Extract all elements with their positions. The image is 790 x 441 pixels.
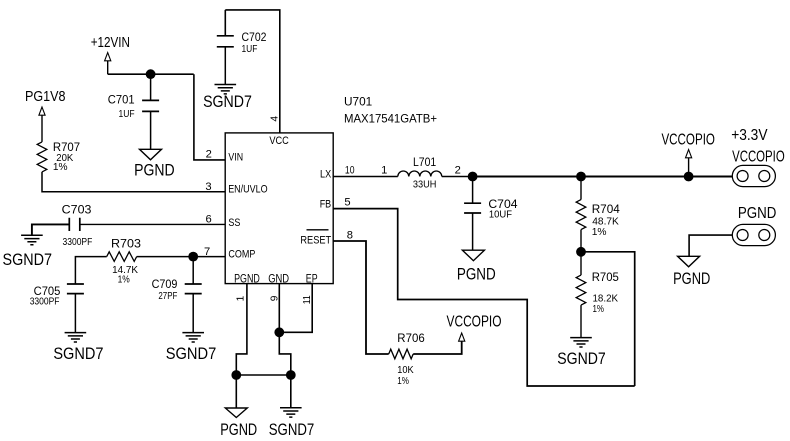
resistor R707	[37, 142, 47, 172]
label PGND connector	[738, 205, 777, 222]
svg-text:2: 2	[455, 165, 461, 177]
value R706 1%	[397, 376, 409, 387]
label R707	[53, 140, 80, 154]
svg-text:+12VIN: +12VIN	[91, 34, 130, 51]
wire C701 bottom stub	[150, 111, 152, 149]
wire C705 to R703	[75, 257, 106, 284]
svg-text:LX: LX	[320, 169, 331, 181]
value C709 27PF	[158, 291, 177, 302]
wire +12VIN horizontal to VIN drop	[108, 73, 194, 75]
svg-text:VIN: VIN	[228, 151, 243, 163]
svg-text:R706: R706	[397, 331, 425, 345]
node rail/VCCOPIO junction	[684, 172, 694, 182]
wire EP pin11	[279, 284, 312, 333]
svg-text:L701: L701	[413, 155, 436, 169]
wire R704 top stub	[580, 177, 582, 200]
value R707 1%	[53, 162, 68, 173]
wire bottom junction link	[236, 374, 290, 376]
label PGND under C701	[134, 162, 175, 180]
svg-text:PGND: PGND	[738, 205, 777, 222]
svg-text:PGND: PGND	[134, 162, 175, 180]
value R703 1%	[118, 275, 130, 286]
ground PGND under connector	[678, 256, 700, 267]
resistor R705	[576, 275, 586, 305]
net label VCCOPIO at R706	[447, 313, 502, 330]
ground SGND7 under C702	[215, 85, 237, 94]
wire C709 top stub	[192, 257, 194, 284]
svg-text:3300PF: 3300PF	[63, 237, 93, 248]
value R706 10K	[397, 365, 413, 376]
svg-text:7: 7	[204, 246, 210, 258]
net label +3.3V	[731, 127, 768, 144]
ground SGND7 under R705	[570, 338, 592, 347]
label R704	[592, 202, 620, 216]
pin number 7	[204, 246, 210, 258]
pin number 9	[269, 295, 280, 301]
wire C701 top stub	[150, 74, 152, 100]
svg-text:+3.3V: +3.3V	[731, 127, 768, 144]
op-amp U701 body	[225, 133, 333, 284]
pin name PGND	[234, 273, 260, 285]
terminal number 1 of L701	[381, 165, 387, 177]
connector J-VCCOPIO	[732, 165, 775, 186]
wire L701 to output rail	[442, 176, 473, 178]
wire R706 to VCCOPIO arrow	[413, 342, 462, 355]
wire R703 to COMP	[137, 256, 226, 258]
ground PGND bottom triangle	[225, 408, 247, 418]
label PGND under C704	[457, 265, 496, 283]
label SGND7 under C702	[203, 93, 252, 111]
wire LX to L701	[333, 176, 398, 178]
svg-text:4: 4	[269, 116, 280, 122]
pin number 5	[344, 197, 350, 209]
svg-text:10K: 10K	[397, 365, 413, 376]
pin name RESET	[300, 230, 331, 247]
node +12VIN/C701 junction	[146, 69, 156, 79]
wire VCCOPIO arrow stem	[688, 158, 690, 177]
pin number 4	[269, 116, 280, 122]
capacitor C701	[142, 100, 159, 111]
svg-text:PGND: PGND	[673, 270, 710, 288]
value R707 20K	[56, 153, 73, 164]
pin number 2	[206, 149, 212, 161]
svg-text:SGND7: SGND7	[557, 350, 606, 368]
power arrow PG1V8	[39, 107, 45, 115]
net label PG1V8	[25, 88, 66, 105]
value L701 33UH	[413, 179, 437, 190]
wire R705 top stub	[580, 252, 582, 275]
svg-text:PGND: PGND	[457, 265, 496, 283]
svg-text:VCC: VCC	[269, 135, 289, 147]
value R705 18.2K	[593, 294, 619, 305]
value R703 14.7K	[112, 265, 138, 276]
wire C702 upper stub	[224, 10, 226, 36]
capacitor C705	[67, 284, 84, 294]
label R706	[397, 331, 425, 345]
pin number 6	[205, 214, 211, 226]
value R704 1%	[592, 227, 607, 238]
label SGND7 under C705	[53, 345, 103, 363]
svg-text:1%: 1%	[397, 376, 409, 387]
wire midpoint to FB drop	[581, 252, 635, 386]
pin name COMP	[228, 248, 255, 260]
node GND/EP junction	[274, 327, 284, 337]
wire GND pin9	[279, 284, 291, 408]
pin number 10	[345, 165, 355, 177]
svg-text:SGND7: SGND7	[53, 345, 103, 363]
svg-text:SS: SS	[228, 217, 240, 229]
capacitor C709	[185, 284, 202, 294]
wire SGND7 stub to C703	[32, 224, 69, 235]
connector J-PGND	[732, 224, 775, 245]
node rail/C704 junction	[468, 172, 478, 182]
pin number 3	[205, 181, 211, 193]
svg-text:1%: 1%	[593, 304, 605, 315]
value R704 48.7K	[592, 216, 619, 227]
wire C703 to SS	[80, 223, 225, 225]
pin number 8	[347, 229, 353, 241]
ground PGND under C704	[462, 250, 484, 261]
label C702	[242, 30, 267, 44]
power arrow +12VIN	[105, 53, 111, 61]
value C704 10UF	[489, 210, 512, 221]
net label VCCOPIO above rail	[661, 132, 715, 149]
svg-text:5: 5	[344, 197, 350, 209]
pin number 1	[236, 295, 247, 301]
wire C709 bottom stub	[192, 294, 194, 333]
svg-text:EN/UVLO: EN/UVLO	[228, 184, 267, 196]
svg-text:R704: R704	[592, 202, 620, 216]
svg-text:U701: U701	[344, 95, 372, 109]
net label +12VIN	[91, 34, 130, 51]
value C703 3300PF	[63, 237, 93, 248]
pin name EP	[306, 273, 318, 285]
svg-text:1UF: 1UF	[242, 44, 258, 55]
label SGND7 under C709	[166, 345, 217, 363]
node FB midpoint junction	[576, 247, 586, 257]
pin name EN/UVLO	[228, 184, 267, 196]
svg-text:18.2K: 18.2K	[593, 294, 619, 305]
pin name VIN	[228, 151, 243, 163]
svg-text:SGND7: SGND7	[3, 251, 53, 269]
node COMP/C709 junction	[188, 252, 198, 262]
label C704	[488, 197, 517, 211]
svg-text:3300PF: 3300PF	[30, 296, 60, 307]
value C702 1UF	[242, 44, 258, 55]
wire RESET to R706	[333, 241, 389, 354]
label SGND7 bottom	[269, 421, 315, 439]
label SGND7 under R705	[557, 350, 606, 368]
svg-text:R705: R705	[592, 270, 619, 284]
svg-text:48.7K: 48.7K	[592, 216, 619, 227]
label C703	[62, 203, 92, 217]
svg-text:SGND7: SGND7	[203, 93, 252, 111]
capacitor C702	[217, 36, 234, 47]
label MAX17541GATB+	[344, 112, 437, 126]
label L701	[413, 155, 436, 169]
svg-text:27PF: 27PF	[158, 291, 177, 302]
value R705 1%	[593, 304, 605, 315]
wire C704 bottom stub	[472, 213, 474, 250]
svg-text:1: 1	[381, 165, 387, 177]
svg-text:FB: FB	[320, 199, 332, 211]
label R705	[592, 270, 619, 284]
pin name SS	[228, 217, 240, 229]
svg-text:10: 10	[345, 165, 355, 177]
resistor R706	[389, 349, 414, 359]
wire R705 bottom stub	[580, 305, 582, 338]
ground SGND7 under C705	[65, 333, 87, 342]
inductor L701	[398, 171, 442, 176]
svg-text:EP: EP	[306, 273, 318, 285]
svg-text:COMP: COMP	[228, 248, 255, 260]
wire PGND pin1	[236, 284, 247, 408]
power arrow VCCOPIO at R706	[459, 333, 465, 341]
svg-text:6: 6	[205, 214, 211, 226]
ground PGND under C701	[140, 149, 162, 160]
capacitor C704	[464, 203, 481, 213]
svg-text:VCCOPIO: VCCOPIO	[661, 132, 715, 149]
wire output rail	[473, 176, 732, 178]
svg-text:VCCOPIO: VCCOPIO	[732, 149, 785, 166]
wire +12VIN stem	[107, 61, 109, 74]
svg-text:33UH: 33UH	[413, 179, 437, 190]
label PGND under connector	[673, 270, 710, 288]
wire PGND connector to ground	[689, 235, 732, 256]
wire C704 top stub	[472, 177, 474, 204]
power arrow VCCOPIO at rail	[686, 150, 692, 158]
pin number 11	[302, 295, 313, 304]
wire C705 bottom stub	[74, 294, 76, 333]
svg-text:RESET: RESET	[300, 235, 331, 247]
node SGND bottom junction	[286, 370, 296, 380]
svg-text:SGND7: SGND7	[269, 421, 315, 439]
svg-text:1%: 1%	[592, 227, 607, 238]
svg-text:C703: C703	[62, 203, 92, 217]
wire PG1V8 stem	[41, 115, 43, 142]
label SGND7 at C703	[3, 251, 53, 269]
terminal number 2 of L701	[455, 165, 461, 177]
node PGND bottom junction	[231, 370, 241, 380]
ground SGND7 at C703	[21, 235, 43, 244]
capacitor C703	[69, 218, 80, 231]
svg-text:1UF: 1UF	[119, 109, 135, 120]
svg-text:SGND7: SGND7	[166, 345, 217, 363]
svg-text:1: 1	[236, 295, 247, 301]
svg-text:1%: 1%	[118, 275, 130, 286]
svg-text:3: 3	[205, 181, 211, 193]
svg-text:PG1V8: PG1V8	[25, 88, 66, 105]
svg-text:GND: GND	[268, 273, 289, 285]
label C705	[34, 284, 61, 298]
svg-text:8: 8	[347, 229, 353, 241]
svg-text:C702: C702	[242, 30, 267, 44]
svg-text:R707: R707	[53, 140, 80, 154]
label PGND bottom	[220, 421, 257, 439]
resistor R703	[107, 252, 137, 262]
svg-text:C701: C701	[108, 93, 135, 107]
svg-text:1%: 1%	[53, 162, 68, 173]
svg-text:10UF: 10UF	[489, 210, 512, 221]
pin name VCC	[269, 135, 289, 147]
pin name FB	[320, 199, 332, 211]
svg-text:MAX17541GATB+: MAX17541GATB+	[344, 112, 437, 126]
wire R704 to midpoint	[580, 230, 582, 252]
pin name LX	[320, 169, 331, 181]
label R703	[111, 237, 141, 251]
wire VIN drop vertical	[194, 74, 225, 160]
ground SGND7 under C709	[182, 333, 204, 342]
svg-text:PGND: PGND	[220, 421, 257, 439]
wire C702 bottom stub	[224, 47, 226, 85]
node rail/R704 junction	[576, 172, 586, 182]
label C701	[108, 93, 135, 107]
resistor R704	[576, 200, 586, 230]
ground SGND7 bottom	[280, 408, 302, 417]
value C701 1UF	[119, 109, 135, 120]
svg-text:PGND: PGND	[234, 273, 260, 285]
wire C702 top rail	[225, 10, 279, 133]
wire R707 to EN/UVLO	[42, 172, 225, 192]
svg-text:2: 2	[206, 149, 212, 161]
label C709	[152, 277, 178, 291]
pin name GND	[268, 273, 289, 285]
svg-text:R703: R703	[111, 237, 141, 251]
svg-text:VCCOPIO: VCCOPIO	[447, 313, 502, 330]
label VCCOPIO connector	[732, 149, 785, 166]
wire FB loop	[333, 209, 635, 386]
value C705 3300PF	[30, 296, 60, 307]
svg-text:11: 11	[302, 295, 313, 304]
label U701	[344, 95, 372, 109]
svg-text:C709: C709	[152, 277, 178, 291]
